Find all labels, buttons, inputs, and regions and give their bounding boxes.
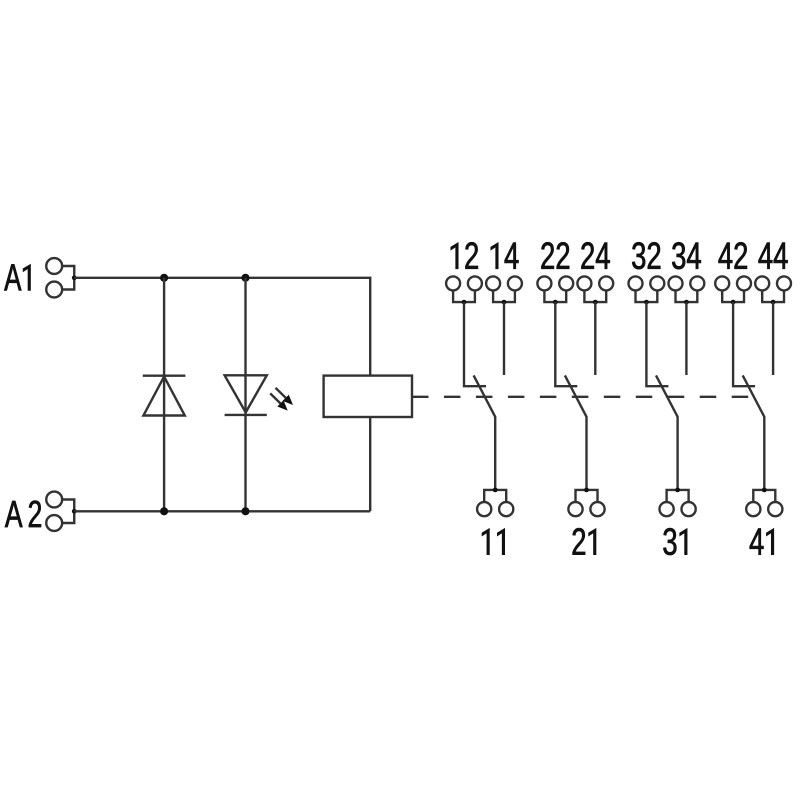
terminal 44 — [755, 276, 791, 304]
terminal A1 — [46, 258, 76, 297]
switch arm contact 2 — [565, 375, 587, 490]
dashed mechanical link — [412, 396, 748, 398]
terminal 34 — [669, 276, 705, 304]
label 21 — [573, 528, 596, 555]
switch arm contact 4 — [743, 375, 765, 490]
node junction diode/A2 — [160, 507, 168, 515]
label A1 — [4, 264, 30, 290]
wire NC contact 12 — [464, 302, 486, 386]
label 32 — [632, 242, 660, 269]
wire coil to A2 — [369, 417, 371, 511]
label 24 — [581, 242, 609, 269]
wire NO contact 44 — [772, 302, 774, 375]
label 42 — [719, 242, 748, 269]
node junction LED/A1 — [241, 274, 249, 282]
wire NO contact 14 — [503, 302, 505, 375]
terminal 42 — [715, 276, 751, 304]
wire A2 — [74, 510, 370, 512]
terminal 32 — [629, 276, 665, 304]
contact group 1 — [446, 242, 522, 555]
label 22 — [541, 242, 569, 269]
label 14 — [491, 243, 519, 269]
switch arm contact 1 — [474, 375, 496, 490]
terminal 12 — [446, 276, 482, 304]
label 44 — [759, 243, 788, 269]
wire NO contact 24 — [594, 302, 596, 375]
node junction diode/A1 — [160, 274, 168, 282]
wire NC contact 22 — [555, 302, 577, 386]
node junction LED/A2 — [241, 507, 249, 515]
LED emission arrow 2 — [270, 393, 288, 410]
terminal 14 — [486, 276, 522, 304]
terminal A2 — [46, 492, 76, 531]
label 41 — [750, 529, 774, 555]
wire NC contact 42 — [733, 302, 755, 386]
LED emission arrow 1 — [276, 388, 294, 405]
terminal 11 — [477, 488, 513, 517]
contact group 3 — [629, 242, 705, 555]
label A2 — [5, 501, 41, 527]
terminal 41 — [746, 488, 782, 517]
wire diode branch — [163, 278, 165, 512]
wire A1 to relay coil — [74, 278, 370, 376]
LED V2 — [225, 375, 267, 415]
wire NC contact 32 — [646, 302, 668, 386]
relay coil K1 — [324, 376, 412, 417]
contact group 4 — [715, 242, 791, 555]
label 12 — [451, 242, 478, 269]
label 31 — [663, 528, 687, 555]
switch arm contact 3 — [656, 375, 678, 490]
terminal 31 — [660, 488, 696, 517]
wire LED branch — [244, 278, 246, 512]
label 11 — [482, 529, 505, 555]
suppressor diode V1 — [143, 376, 186, 416]
wire NO contact 34 — [685, 302, 687, 375]
label 34 — [672, 242, 701, 269]
terminal 24 — [577, 276, 613, 304]
terminal 21 — [568, 488, 604, 517]
terminal 22 — [537, 276, 573, 304]
contact group 2 — [537, 242, 613, 555]
